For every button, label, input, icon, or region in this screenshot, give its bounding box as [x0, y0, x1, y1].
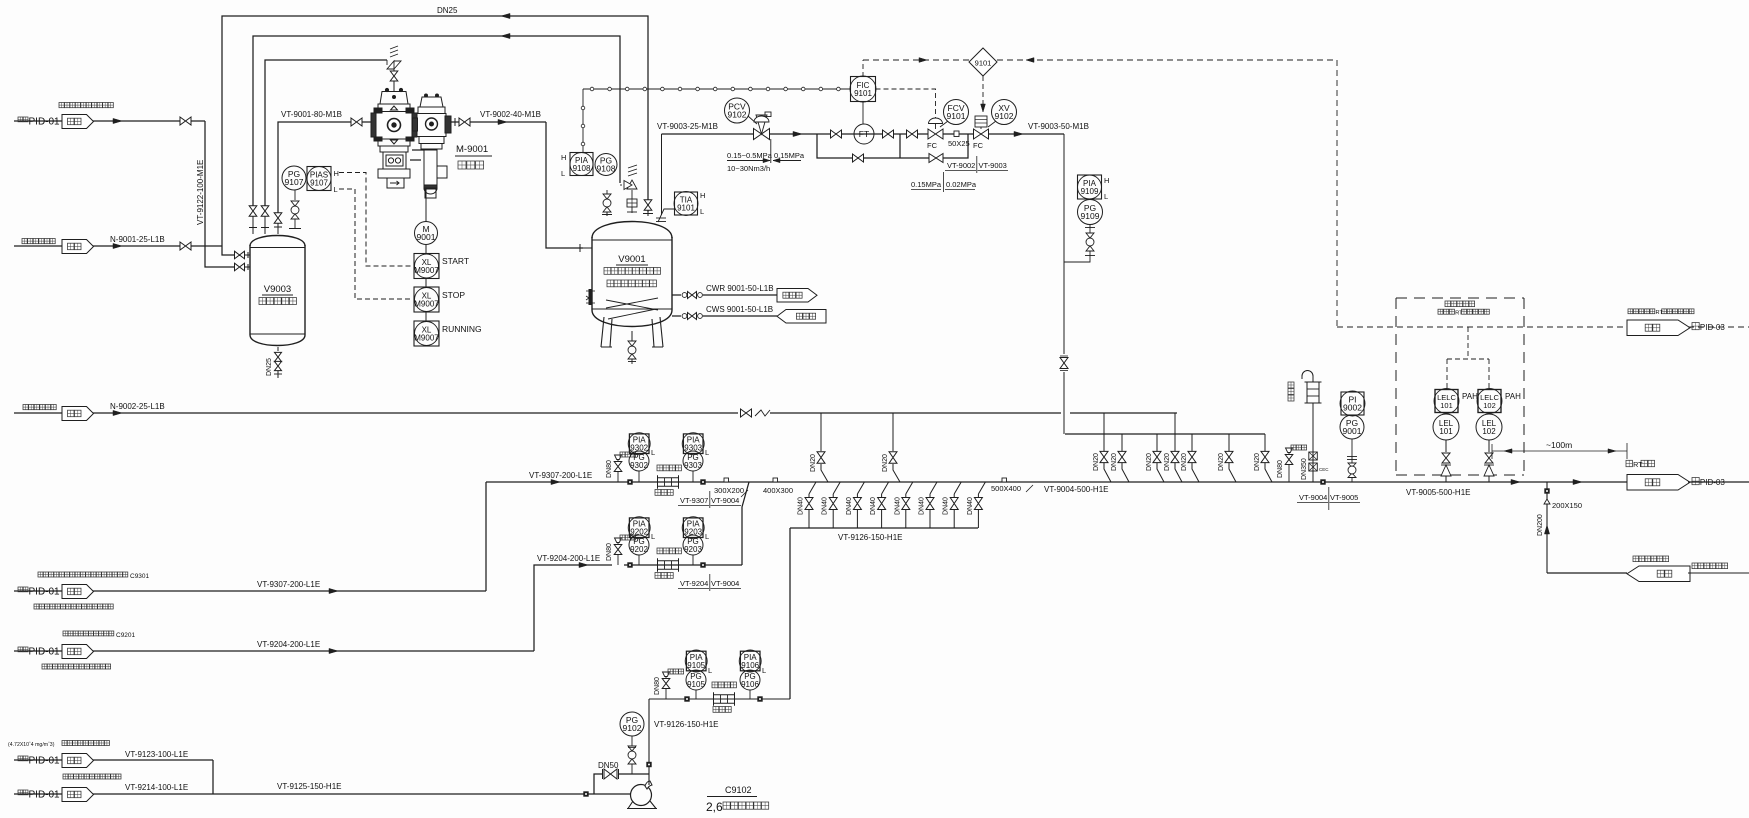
label note bottom 9307	[34, 604, 113, 609]
flame arrestor 9126	[714, 695, 735, 704]
sample port 9307	[615, 455, 622, 460]
label 来自氮气总管 2	[23, 405, 56, 410]
label 压缩机	[458, 161, 484, 169]
flag nitrogen2	[62, 407, 94, 421]
svg-text:9002: 9002	[1343, 403, 1362, 413]
arrow feed1	[113, 118, 122, 123]
inline fitting pump suction	[583, 791, 588, 796]
label C9201 note top	[63, 631, 114, 636]
arrow 9307b	[551, 479, 560, 484]
svg-text:CEC: CEC	[1319, 467, 1329, 472]
svg-text:VT-9001-80-M1B: VT-9001-80-M1B	[281, 110, 342, 119]
dimension ~100m	[1491, 444, 1493, 459]
svg-text:C9301: C9301	[130, 573, 150, 580]
svg-text:START: START	[442, 256, 469, 266]
svg-text:9001: 9001	[1343, 426, 1362, 436]
svg-text:DN25: DN25	[437, 6, 458, 15]
signal dashed to diamond left	[863, 59, 969, 61]
arrow line2 left	[501, 33, 510, 38]
vertical flame arrestor	[1307, 382, 1319, 403]
signal dashed diamond right run	[997, 59, 1337, 61]
inline fitting 9204b	[700, 562, 705, 567]
arrow main1	[1511, 479, 1520, 484]
label 来自氮气总管	[22, 239, 55, 244]
flame arrestor 9204	[658, 561, 679, 570]
flag tail-gas from PID-01	[62, 115, 94, 129]
wire: N2 purge stub A	[820, 413, 822, 451]
wire: N2 purge stub B	[892, 413, 894, 451]
wire: VT-9004 main line y482	[486, 481, 1627, 483]
instrument LEL102	[1476, 414, 1502, 440]
gauge PG9302	[638, 471, 640, 482]
svg-text:DN20: DN20	[1254, 453, 1261, 471]
instrument LELC102	[1478, 390, 1501, 413]
wire: tail-gas feed from PID-01 to V9003	[14, 120, 62, 122]
wire: equalizing line V9003-V9001 relief	[253, 36, 620, 206]
svg-text:L: L	[708, 666, 712, 675]
pressure gauge PG9001	[1340, 415, 1364, 439]
wire: DN200 lab exhaust branch	[1546, 482, 1548, 573]
valve DN50	[604, 769, 617, 779]
N2 header valve	[741, 409, 752, 417]
svg-text:L: L	[762, 666, 766, 675]
valve DN40-3	[853, 498, 861, 510]
svg-text:H: H	[334, 169, 339, 178]
svg-text:VT-9125-150-H1E: VT-9125-150-H1E	[277, 782, 341, 791]
gauge PG9105	[695, 690, 697, 699]
flag to RTO furnace	[1627, 475, 1690, 491]
purge valve R5 DN20	[1188, 451, 1196, 462]
fitting DN200	[1544, 488, 1549, 493]
svg-text:500X400: 500X400	[991, 484, 1021, 493]
svg-text:DN20: DN20	[810, 454, 817, 472]
shutoff valve XV9102	[974, 129, 989, 139]
svg-text:VT-9005: VT-9005	[1330, 493, 1358, 502]
logic diamond 9101	[969, 48, 997, 76]
reducer 200X150	[1544, 499, 1550, 504]
wire: CWS cooling water supply	[672, 315, 681, 317]
svg-text:DN80: DN80	[1277, 460, 1284, 478]
vacuum blower C9102	[631, 785, 652, 806]
svg-text:PAH: PAH	[1462, 392, 1478, 401]
V9001 rupture disc	[627, 199, 637, 207]
wire: electric signal line w circles	[582, 89, 584, 152]
instrument PIA9303	[683, 434, 703, 454]
purge valve R2 DN20	[1118, 451, 1126, 462]
vessel V9001 high-conc buffer tank	[592, 237, 672, 310]
valve LEL102	[1485, 453, 1493, 463]
arrow DN25 left	[501, 13, 510, 18]
svg-text:VT-9003-25-M1B: VT-9003-25-M1B	[657, 122, 718, 131]
wire: N2 drop to low header	[1065, 433, 1265, 435]
label 来自PID-01 (9307)	[18, 587, 28, 592]
svg-text:9102: 9102	[623, 723, 642, 733]
svg-text:VT-9126-150-H1E: VT-9126-150-H1E	[654, 720, 718, 729]
svg-text:N-9002-25-L1B: N-9002-25-L1B	[110, 402, 165, 411]
wire: LEL101 tap	[1445, 440, 1447, 452]
arrow 9204b	[579, 562, 588, 567]
sample port 9126	[663, 672, 670, 677]
svg-text:DN80: DN80	[606, 543, 613, 561]
signal dashed FIC to FCV	[876, 89, 936, 118]
label C9301 note top	[38, 572, 128, 577]
svg-text:101: 101	[1440, 401, 1453, 410]
purge valve R1 DN20	[1100, 451, 1108, 462]
label note 9214	[63, 774, 121, 779]
wire: DN40 stub 8	[978, 482, 985, 494]
sample port 9204	[615, 538, 622, 543]
instrument PIA9202	[629, 518, 649, 538]
riser fitting 2	[1309, 463, 1318, 471]
svg-text:9303: 9303	[684, 444, 702, 453]
purge valve R7 DN20	[1261, 451, 1269, 462]
svg-text:VT-9122-100-M1E: VT-9122-100-M1E	[196, 160, 205, 225]
wire: purge stub R2	[1121, 434, 1123, 451]
svg-text:9203: 9203	[684, 545, 702, 554]
instrument PIA9109	[1078, 175, 1102, 199]
svg-text:9109: 9109	[1081, 211, 1100, 221]
svg-text:STOP: STOP	[442, 290, 465, 300]
svg-text:DN20: DN20	[1093, 453, 1100, 471]
svg-text:9102: 9102	[728, 110, 747, 120]
flow element FT	[854, 124, 874, 144]
inline fitting main	[1320, 479, 1325, 484]
wire: purge stub R7	[1264, 434, 1266, 451]
V9001 relief valve	[627, 180, 637, 189]
svg-text:VT-9307-200-L1E: VT-9307-200-L1E	[257, 580, 320, 589]
svg-text:0.15~0.5MPa: 0.15~0.5MPa	[727, 151, 773, 160]
svg-text:RT: RT	[1656, 310, 1664, 316]
svg-text:DN80: DN80	[654, 677, 661, 695]
instrument PIA9105	[686, 651, 706, 671]
svg-text:VT-9126-150-H1E: VT-9126-150-H1E	[838, 533, 902, 542]
V9001 level gauge	[589, 289, 593, 305]
signal dashes to LELC	[1467, 327, 1469, 359]
V9001 internal coil	[606, 298, 658, 308]
V9003 bottom nozzle DN25	[277, 347, 279, 351]
svg-text:9101: 9101	[677, 204, 695, 213]
svg-text:9202: 9202	[630, 545, 648, 554]
flag tailgas 9214	[62, 788, 94, 802]
V9001 nozzle PG9108 hook	[606, 212, 608, 216]
svg-text:9106: 9106	[741, 680, 759, 689]
instrument PIA9302	[629, 434, 649, 454]
svg-text:VT-9307-200-L1E: VT-9307-200-L1E	[529, 471, 592, 480]
wire: DN40 stub 5	[906, 482, 913, 494]
svg-text:VT-9004: VT-9004	[711, 496, 739, 505]
pressure gauge PG9108	[595, 154, 617, 176]
wire: VT-9204 inlet	[14, 650, 62, 652]
svg-text:DN20: DN20	[1146, 453, 1153, 471]
svg-text:DN25: DN25	[266, 358, 273, 376]
svg-text:DN350: DN350	[1301, 458, 1308, 480]
wire: DN25 return header to V9003	[222, 16, 648, 255]
valve DN40-1	[805, 498, 813, 510]
svg-text:DN20: DN20	[1218, 453, 1225, 471]
V9003 inlet valves left	[235, 251, 245, 259]
valve on feed1	[180, 117, 191, 125]
svg-text:V9001: V9001	[618, 254, 645, 265]
svg-text:9303: 9303	[684, 461, 702, 470]
arrow discharge	[498, 119, 507, 124]
gauge PG9202	[638, 555, 640, 565]
svg-text:9203: 9203	[684, 528, 702, 537]
svg-text:L: L	[705, 532, 709, 541]
label 浓度分析仪	[1445, 301, 1475, 307]
svg-text:PID-01: PID-01	[29, 790, 61, 801]
svg-text:0.02MPa: 0.02MPa	[946, 180, 977, 189]
wire: purge stub R1	[1103, 413, 1105, 451]
purge valve R6 DN20	[1225, 451, 1233, 462]
svg-text:9302: 9302	[630, 461, 648, 470]
instrument PCV9102	[725, 98, 750, 123]
svg-text:~100m: ~100m	[1546, 440, 1572, 450]
instrument PIA9203	[683, 518, 703, 538]
purge valve R3 DN20	[1153, 451, 1161, 462]
svg-text:9302: 9302	[630, 444, 648, 453]
vent riser DN350	[1312, 403, 1314, 482]
purge valve A DN20	[817, 452, 825, 464]
svg-text:DN80: DN80	[606, 460, 613, 478]
wire: DN40 stub 6	[930, 482, 937, 494]
svg-text:DN40: DN40	[846, 497, 853, 515]
svg-text:9107: 9107	[285, 177, 304, 187]
valve on N-9001	[180, 242, 191, 250]
instrument LELC101	[1435, 390, 1458, 413]
wire: VT-9003-25-M1B to PCV	[662, 133, 754, 135]
svg-text:L: L	[651, 532, 655, 541]
V9003 top nozzle 3 (compressor suction)	[277, 224, 279, 235]
svg-text:DN20: DN20	[1181, 453, 1188, 471]
svg-text:DN20: DN20	[1164, 453, 1171, 471]
gooseneck vent	[1302, 371, 1313, 379]
svg-text:FC: FC	[927, 141, 938, 150]
svg-text:C9201: C9201	[116, 632, 136, 639]
arrow before label	[1014, 131, 1023, 136]
label 去RT炉	[1626, 460, 1632, 466]
svg-text:10~30Nm3/h: 10~30Nm3/h	[727, 164, 770, 173]
wire: DN40 stub 3	[857, 482, 864, 494]
wire: CWR cooling water return	[672, 294, 681, 296]
svg-text:VT-9005-500-H1E: VT-9005-500-H1E	[1406, 488, 1470, 497]
label 来自PID-01 (9204)	[18, 647, 28, 652]
label 阻火器 vert	[1288, 382, 1294, 401]
valve LEL101	[1442, 453, 1450, 463]
inline fitting discharge	[646, 762, 651, 767]
sample port main DN80	[1286, 448, 1293, 453]
V9001 left inlet nozzle	[583, 247, 592, 249]
V9003 top nozzle 2 valve	[261, 206, 269, 216]
svg-text:L: L	[700, 207, 704, 216]
lamp XL M9007 start	[425, 245, 427, 255]
vessel V9003 front buffer tank	[250, 245, 305, 335]
wire: discharge VT-9002-40-M1B	[451, 121, 459, 123]
wire: main to edge	[1688, 481, 1749, 483]
wire: DN40 stub 7	[954, 482, 961, 494]
svg-text:VT-9214-100-L1E: VT-9214-100-L1E	[125, 783, 188, 792]
svg-text:200X150: 200X150	[1552, 501, 1582, 510]
svg-text:FT: FT	[859, 129, 869, 139]
valve DN40-5	[902, 498, 910, 510]
svg-text:9102: 9102	[995, 111, 1014, 121]
gauge PG9106	[749, 690, 751, 699]
flag nitrogen from header	[62, 240, 94, 254]
signal dashes PIAS H to XL1	[339, 173, 413, 267]
svg-text:9106: 9106	[741, 661, 759, 670]
svg-text:CWR 9001-50-L1B: CWR 9001-50-L1B	[706, 284, 774, 293]
svg-text:VT-9004-500-H1E: VT-9004-500-H1E	[1044, 485, 1108, 494]
svg-text:M9007: M9007	[414, 334, 439, 343]
arrow DN200 up	[1544, 525, 1549, 534]
svg-text:9101: 9101	[947, 111, 966, 121]
V9001 nozzle to DN25 header valve	[647, 212, 649, 216]
svg-text:VT-9204-200-L1E: VT-9204-200-L1E	[537, 554, 600, 563]
flag from lab exhaust	[1627, 566, 1690, 582]
wire: VT-9126 subheader	[790, 527, 978, 529]
svg-text:9202: 9202	[630, 528, 648, 537]
flag tailgas 9204	[62, 645, 94, 659]
signal dashed down to analyzer	[1336, 60, 1338, 327]
svg-text:L: L	[651, 448, 655, 457]
svg-text:V9003: V9003	[264, 284, 291, 295]
wire: pump discharge riser	[648, 699, 650, 785]
label 来自化验室引风 above	[1633, 556, 1669, 562]
V9001 bottom drain	[631, 331, 633, 341]
svg-text:DN40: DN40	[870, 497, 877, 515]
purge valve R4 DN20	[1171, 451, 1179, 462]
inline fitting 9307b	[700, 479, 705, 484]
svg-text:DN40: DN40	[822, 497, 829, 515]
svg-text:DN40: DN40	[894, 497, 901, 515]
instrument XV9102	[992, 100, 1017, 125]
svg-text:H: H	[561, 153, 566, 162]
instrument TIA9101	[675, 192, 698, 215]
wire: VT-9214/9125 bottom line	[14, 793, 62, 795]
svg-text:FC: FC	[973, 141, 984, 150]
label 前置缓冲罐	[259, 298, 296, 305]
reducer 300X200	[724, 478, 729, 482]
svg-text:DN40: DN40	[943, 497, 950, 515]
PG9109 root valve	[1085, 227, 1095, 229]
svg-text:VT-9002-40-M1B: VT-9002-40-M1B	[480, 110, 541, 119]
arrow N-9001	[113, 243, 122, 248]
CWR valve	[682, 293, 687, 298]
flag CWR recirculating water	[777, 289, 817, 303]
wire: purge stub R6	[1228, 434, 1230, 451]
valve DN40-6	[926, 498, 934, 510]
reducer 50X25	[954, 131, 959, 137]
svg-text:9101: 9101	[975, 59, 992, 68]
svg-text:400X300: 400X300	[763, 486, 793, 495]
svg-text:M9007: M9007	[414, 266, 439, 275]
svg-text:PID-01: PID-01	[29, 756, 61, 767]
signal dashes PIAS L to XL2	[339, 189, 413, 299]
compressor relief valve assembly	[387, 61, 401, 69]
label 500X400	[1002, 478, 1007, 482]
wire: purge stub R4	[1174, 413, 1176, 451]
svg-text:RT: RT	[1633, 460, 1643, 469]
wire: after flag to edge	[1688, 326, 1749, 328]
signal dashed to PID-03 flag	[1337, 326, 1627, 328]
svg-text:DN40: DN40	[919, 497, 926, 515]
instrument FCV9101	[944, 100, 969, 125]
arrow after PCV	[793, 131, 802, 136]
flag analyzer out	[1627, 320, 1690, 336]
V9001 nozzle VT-9003 riser	[661, 134, 663, 215]
suction block valve	[351, 118, 362, 126]
controller FIC9101	[862, 60, 864, 77]
svg-text:102: 102	[1482, 427, 1496, 436]
svg-text:VT-9003: VT-9003	[979, 161, 1007, 170]
wire: DN50 bypass	[594, 774, 602, 794]
label note bottom 9204	[42, 664, 111, 669]
svg-text:DN50: DN50	[598, 761, 619, 770]
discharge valve	[459, 118, 470, 126]
svg-text:H: H	[1104, 176, 1109, 185]
flag tailgas 9307	[62, 585, 94, 599]
reducer 400X300	[773, 478, 778, 482]
flame arrestor 9307	[658, 478, 679, 487]
svg-text:L: L	[1104, 192, 1108, 201]
svg-text:DN20: DN20	[882, 454, 889, 472]
svg-text:VT-9307: VT-9307	[680, 496, 708, 505]
pressure gauge PG9107	[282, 166, 306, 190]
svg-text:9101: 9101	[854, 89, 872, 98]
gauge PG9102 hookup	[631, 764, 633, 774]
block valve FT upstream	[831, 130, 842, 138]
svg-text:50X25: 50X25	[948, 139, 970, 148]
svg-text:9108: 9108	[573, 164, 591, 173]
instrument LEL101	[1433, 414, 1459, 440]
self-regulating valve PCV9102	[754, 129, 770, 140]
svg-text:PID-01: PID-01	[29, 647, 61, 658]
signal dashed diamond to XV	[982, 76, 984, 112]
wire: line PCV to FT to XV	[770, 133, 928, 135]
inline fitting 9307a	[627, 479, 632, 484]
svg-text:0.15MPa: 0.15MPa	[911, 180, 942, 189]
svg-text:CWS 9001-50-L1B: CWS 9001-50-L1B	[706, 305, 773, 314]
svg-text:DN20: DN20	[1111, 453, 1118, 471]
instrument PI9002	[1341, 392, 1364, 415]
svg-text:9108: 9108	[597, 164, 616, 174]
flag tailgas 9123	[62, 754, 94, 768]
wire: DN40 stub 1	[809, 482, 816, 494]
svg-text:9109: 9109	[1081, 187, 1099, 196]
svg-text:VT-9004: VT-9004	[711, 579, 739, 588]
pressure gauge PG9109	[1078, 200, 1103, 225]
label 来自PID-01 (9123)	[18, 756, 28, 761]
lamp XL M9007 running	[425, 312, 427, 321]
svg-text:L: L	[705, 448, 709, 457]
instrument PIAS9107	[307, 167, 331, 191]
wire: VT-9003-50 riser down	[1063, 134, 1065, 354]
lamp XL M9007 stop	[425, 279, 427, 288]
inline fitting 9204a	[627, 562, 632, 567]
wire: N-9002-25-L1B nitrogen header	[14, 412, 62, 414]
inline fitting 9126b	[757, 696, 762, 701]
svg-text:DN200: DN200	[1537, 514, 1544, 536]
gauge PG9303	[692, 471, 694, 482]
PG9001 valve	[1351, 439, 1353, 482]
analyzer enclosure dashed box	[1396, 297, 1524, 299]
arrow N-9002	[113, 410, 122, 415]
svg-text:H: H	[700, 191, 705, 200]
svg-text:9105: 9105	[687, 661, 705, 670]
inline fitting 9126a	[684, 696, 689, 701]
svg-text:PID-01: PID-01	[29, 117, 61, 128]
svg-text:DN40: DN40	[798, 497, 805, 515]
wire: lab exhaust line edge	[1688, 572, 1749, 574]
